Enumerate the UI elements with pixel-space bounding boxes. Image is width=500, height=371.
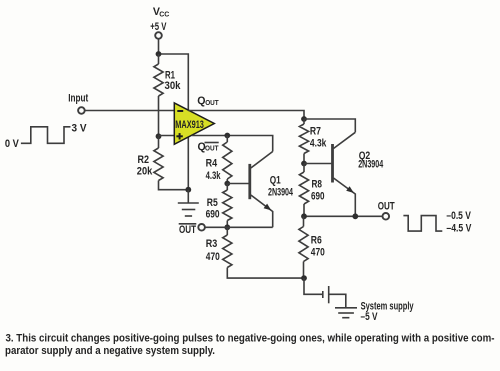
svg-text:4.3k: 4.3k: [206, 170, 221, 182]
wire supply branch: [304, 278, 322, 294]
svg-text:R3: R3: [206, 238, 218, 250]
svg-text:R5: R5: [207, 197, 218, 209]
output waveform -0.5V/-4.5V: [403, 210, 471, 235]
resistor R6 470: [299, 216, 325, 278]
resistor R8 690: [299, 164, 324, 217]
terminal OUT-bar: [179, 224, 205, 236]
wire input to comparator minus input: [85, 110, 175, 112]
resistor R3 470: [206, 227, 304, 278]
wire battery to ground: [329, 294, 346, 308]
junction dot R5/R3/OUT-bar: [224, 224, 230, 230]
junction dot R4/R5/Q1 base: [224, 181, 230, 187]
ground symbol (comparator): [178, 190, 199, 216]
junction dot comparator ground node: [185, 187, 191, 193]
junction dot R7/R8/Q2 base: [301, 161, 307, 167]
svg-text:OUT: OUT: [378, 201, 395, 213]
svg-text:R6: R6: [311, 235, 322, 247]
junction dot Q-out / R7: [301, 116, 307, 122]
svg-text:3. This circuit changes positi: 3. This circuit changes positive-going p…: [6, 333, 495, 345]
wire VCC junction to comparator V+ pin (vertical behind triangle down to ground node): [159, 54, 189, 190]
svg-text:20k: 20k: [137, 166, 153, 178]
wire OUT-bar node to Q1 emitter: [205, 226, 273, 228]
svg-text:690: 690: [206, 209, 220, 221]
junction dot R3/R6/supply: [301, 275, 307, 281]
junction dot Qbar/R4: [224, 133, 230, 139]
junction dot Q2 emitter/output: [352, 213, 358, 219]
svg-text:R7: R7: [310, 126, 321, 138]
svg-text:MAX913: MAX913: [175, 119, 204, 131]
svg-text:R2: R2: [138, 154, 150, 166]
ground symbol (system supply): [335, 308, 357, 318]
resistor R5 690: [206, 184, 232, 228]
svg-text:3 V: 3 V: [72, 123, 87, 135]
input waveform 0V/3V: [5, 123, 87, 151]
wire plus input: [159, 135, 177, 137]
power terminal VCC +5V: [150, 6, 169, 39]
svg-text:Q1: Q1: [270, 175, 281, 187]
svg-text:–0.5 V: –0.5 V: [446, 210, 471, 222]
svg-text:470: 470: [311, 247, 325, 259]
resistor R7 4.3k: [299, 119, 326, 164]
wire output line to OUT terminal: [304, 215, 383, 217]
svg-text:R8: R8: [312, 179, 323, 191]
transistor Q2 2N3904: [333, 132, 384, 216]
wire Q2 base: [304, 163, 331, 165]
svg-text:OUT: OUT: [179, 224, 196, 236]
svg-text:Input: Input: [68, 93, 88, 105]
svg-text:OUT: OUT: [205, 98, 219, 107]
wire Q-bar output to R4 and Q1 collector: [192, 136, 273, 152]
svg-text:CC: CC: [159, 11, 169, 18]
wire Q-out node to Q2 collector: [304, 119, 355, 132]
svg-text:690: 690: [311, 191, 325, 203]
op-amp U1 comparator MAX913: [174, 103, 214, 144]
wire Q output to R7 column: [188, 111, 304, 120]
svg-text:2N3904: 2N3904: [358, 159, 383, 171]
svg-text:OUT: OUT: [205, 144, 219, 153]
node label Q OUT-bar: [198, 141, 219, 153]
input terminal: [68, 93, 88, 114]
resistor R2 20k: [137, 136, 189, 189]
junction dot R1/R2/plus-input node: [156, 133, 162, 139]
svg-text:30k: 30k: [165, 80, 181, 92]
svg-text:470: 470: [206, 251, 220, 263]
wire Q1 base: [227, 183, 248, 185]
transistor Q1 2N3904: [250, 152, 293, 228]
svg-text:–4.5 V: –4.5 V: [446, 223, 471, 235]
node label Q OUT: [197, 95, 219, 107]
junction dot R8/R6/output: [301, 213, 307, 219]
svg-text:4.3k: 4.3k: [310, 138, 327, 150]
svg-text:0 V: 0 V: [5, 138, 19, 150]
svg-text:parator supply and a negative: parator supply and a negative system sup…: [5, 345, 215, 357]
resistor R4 4.3k: [206, 136, 232, 184]
svg-text:2N3904: 2N3904: [268, 187, 293, 199]
junction dot VCC/R1: [156, 51, 162, 57]
svg-text:R4: R4: [206, 158, 218, 170]
terminal OUT: [378, 201, 395, 220]
wire VCC drop to junction: [158, 39, 160, 54]
resistor R1 30k: [154, 54, 181, 136]
svg-text:–5 V: –5 V: [361, 311, 378, 323]
battery system supply -5V: [323, 286, 414, 323]
